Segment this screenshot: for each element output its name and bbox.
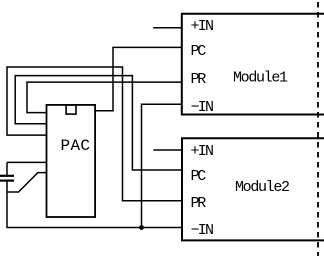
junction dot on -IN bus <box>139 225 144 230</box>
wire capacitor top to PAC left pin <box>7 161 47 163</box>
svg-text:+IN: +IN <box>191 18 215 35</box>
svg-text:−IN: −IN <box>191 222 215 239</box>
wire Module1 +IN stub <box>153 27 182 29</box>
module U2 box (Module2) <box>182 138 324 240</box>
capacitor C1 plates <box>0 176 14 181</box>
boundary dashed line (right frame) <box>317 2 319 256</box>
PAC pin-1 notch square <box>66 105 76 114</box>
svg-text:PR: PR <box>191 71 207 88</box>
wire Module1 PR to PAC left pin (loop L3) <box>27 82 182 113</box>
svg-text:+IN: +IN <box>191 143 215 160</box>
wire -IN bus to Module2 -IN <box>7 162 182 227</box>
svg-text:Module2: Module2 <box>235 179 290 196</box>
svg-text:PR: PR <box>191 195 207 212</box>
wire Module2 +IN stub <box>153 149 182 151</box>
svg-text:PC: PC <box>191 168 207 185</box>
svg-text:−IN: −IN <box>191 99 215 116</box>
wire Module1 -IN down to -IN bus <box>142 104 182 227</box>
wire PAC left pin to Module2 PC (loop L2) <box>15 76 182 170</box>
svg-text:Module1: Module1 <box>233 70 288 87</box>
wire PAC left pin to Module2 PR (loop L1) <box>7 67 182 201</box>
svg-text:PAC: PAC <box>61 137 91 155</box>
PAC microcontroller box U3 <box>47 105 96 217</box>
module U1 box (Module1) <box>182 14 324 115</box>
svg-text:PC: PC <box>191 43 207 60</box>
wire Module1 PC to PAC right pin <box>95 47 182 110</box>
switch S1 (blade and contacts) <box>7 173 47 192</box>
